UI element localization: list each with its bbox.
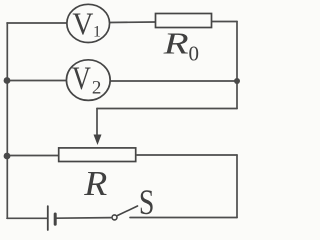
wire right vertical upper segment	[236, 22, 238, 109]
resistor R0	[156, 14, 212, 28]
battery short plate	[54, 214, 57, 224]
junction dot left lower	[4, 153, 11, 160]
wire slider vertical down to arrow	[96, 109, 98, 137]
battery long plate	[47, 206, 49, 230]
switch pivot circle	[112, 215, 117, 220]
voltmeter V2	[66, 60, 110, 101]
wire V1 to R0	[109, 21, 155, 24]
svg-text:2: 2	[92, 78, 102, 99]
voltmeter V1	[67, 4, 110, 42]
junction dot right	[234, 78, 240, 84]
arrowhead of rheostat slider	[94, 135, 102, 146]
wire V2 to right vertical	[110, 80, 237, 82]
wire R0 to top-right corner	[212, 21, 237, 23]
svg-text:R: R	[83, 164, 107, 203]
wire rheostat R to right	[137, 154, 237, 156]
svg-text:0: 0	[189, 42, 200, 66]
wire battery to switch	[56, 217, 111, 220]
svg-text:V: V	[72, 6, 93, 42]
svg-text:V: V	[72, 61, 91, 97]
svg-text:R: R	[162, 26, 188, 61]
label R0	[162, 26, 199, 66]
wire slider branch horizontal	[97, 108, 237, 110]
wire switch to bottom-right corner	[130, 217, 237, 219]
junction dot left middle	[4, 77, 11, 84]
switch lever	[118, 206, 138, 216]
wire bottom left segment to battery	[7, 217, 47, 219]
svg-text:S: S	[139, 182, 155, 222]
wire left vertical	[6, 23, 8, 218]
wire left to rheostat R	[7, 155, 58, 157]
wire right vertical lower segment	[236, 155, 238, 218]
wire V2 row left	[7, 80, 67, 82]
svg-text:1: 1	[93, 24, 101, 41]
rheostat R box	[59, 148, 136, 162]
wire top-left to V1	[7, 22, 67, 24]
